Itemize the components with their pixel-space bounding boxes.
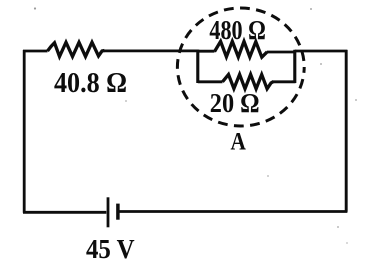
svg-text:40.8 Ω: 40.8 Ω [54, 66, 127, 99]
svg-text:480 Ω: 480 Ω [209, 16, 265, 46]
dashed boundary ellipse around parallel group [177, 8, 304, 126]
resistor R2 480 ohm zigzag [215, 41, 268, 57]
svg-text:20 Ω: 20 Ω [210, 88, 260, 118]
wire bottom left segment [23, 211, 106, 214]
wire top branch lead-out [267, 51, 296, 54]
battery B1 long plate (positive) [107, 197, 110, 227]
wire bottom right segment [120, 210, 348, 213]
wire right side [345, 50, 348, 212]
node left junction bar of parallel group [196, 50, 199, 83]
svg-text:A: A [231, 128, 247, 156]
wire top right segment [295, 50, 348, 53]
wire bottom branch lead-out [273, 80, 296, 83]
wire top left segment [23, 50, 48, 53]
wire bottom branch lead-in [198, 80, 223, 83]
resistor R1 40.8 ohm zigzag [48, 42, 105, 56]
node right junction bar of parallel group [293, 50, 296, 83]
wire top middle segment [104, 50, 199, 53]
wire top branch lead-in [198, 50, 215, 53]
resistor R3 20 ohm zigzag [223, 74, 274, 88]
wire left side [23, 50, 26, 213]
svg-text:45 V: 45 V [86, 234, 135, 263]
scan speckle dots [34, 7, 357, 244]
battery B1 short plate (negative) [116, 204, 120, 220]
